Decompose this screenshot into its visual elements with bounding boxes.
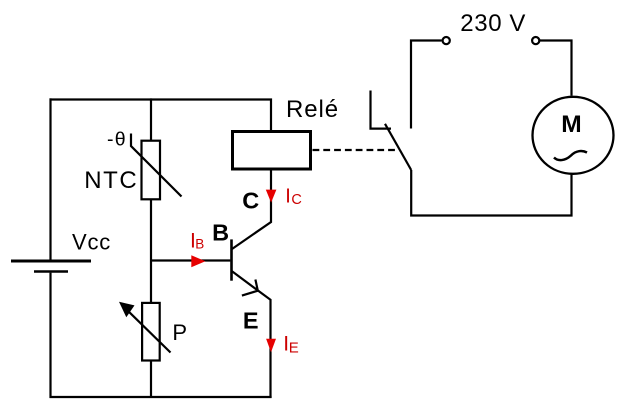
svg-text:NTC: NTC [84, 167, 138, 194]
svg-text:230 V: 230 V [460, 10, 526, 37]
svg-text:B: B [195, 237, 204, 252]
svg-text:B: B [212, 220, 229, 246]
svg-text:M: M [561, 111, 581, 138]
svg-text:C: C [242, 188, 259, 214]
svg-text:Vcc: Vcc [72, 229, 111, 254]
svg-text:-θ: -θ [107, 128, 127, 150]
svg-text:C: C [291, 192, 301, 208]
svg-text:Relé: Relé [286, 96, 339, 123]
svg-text:I: I [285, 185, 291, 207]
svg-text:E: E [289, 340, 299, 357]
svg-text:E: E [243, 308, 259, 334]
svg-text:P: P [172, 320, 187, 345]
